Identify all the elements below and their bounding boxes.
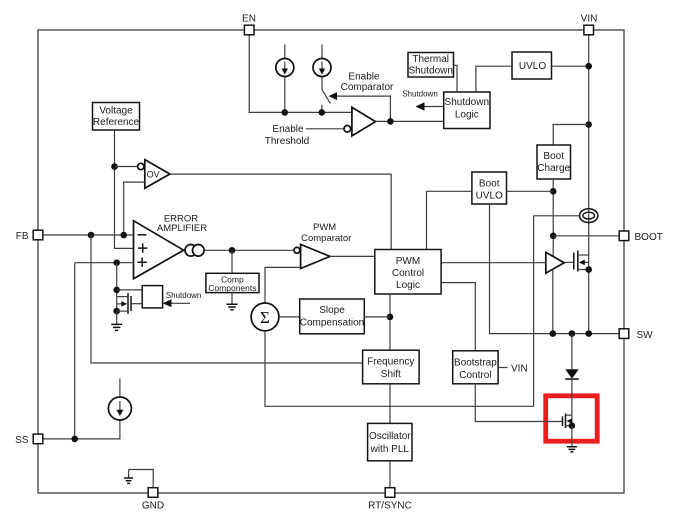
svg-text:Threshold: Threshold — [265, 136, 309, 147]
junction dot Q2 source — [569, 422, 576, 429]
svg-text:Oscillator: Oscillator — [369, 431, 411, 442]
shutdown arrow into clamp box — [171, 302, 190, 304]
wire SS pin to soft-start current source — [43, 420, 120, 439]
transistor Q3 source lead — [117, 310, 128, 312]
svg-text:AMPLIFIER: AMPLIFIER — [157, 223, 207, 234]
svg-text:Boot: Boot — [543, 151, 564, 162]
transistor Q1 high-side NMOS gate bar — [573, 253, 575, 270]
junction dot input2 / shutdown clamp — [113, 259, 120, 266]
wire OV output to pwm control logic — [170, 174, 391, 249]
wire driver return to SW — [552, 269, 554, 333]
Shutdown Logic block — [444, 92, 490, 129]
transistor Q2 low-side NMOS gate bar — [562, 416, 564, 426]
junction dot VIN/boot charge — [585, 121, 592, 128]
wire sigma to slope compensation — [279, 316, 300, 318]
svg-text:Reference: Reference — [93, 117, 140, 128]
summing node sigma — [251, 303, 279, 331]
current source I2 (hysteresis) stub — [321, 44, 323, 89]
pin BOOT — [619, 231, 629, 241]
pin FB — [33, 230, 43, 240]
junction dot VIN/UVLO — [585, 63, 592, 70]
transistor Q1 drain lead — [578, 254, 589, 256]
svg-text:Shutdown: Shutdown — [166, 291, 202, 300]
enable comparator inverting bubble — [344, 126, 351, 133]
transistor Q2 source lead — [566, 425, 572, 427]
svg-text:PWM: PWM — [313, 222, 336, 233]
wire thermal shutdown to shutdown logic — [454, 65, 458, 92]
Oscillator with PLL block — [368, 423, 412, 460]
Voltage Reference block — [93, 103, 140, 131]
svg-text:UVLO: UVLO — [476, 190, 503, 201]
junction dot slope comp node — [387, 314, 394, 321]
wire pwm comparator output — [330, 255, 375, 257]
hysteresis control arrow from comparator output to switch — [336, 96, 391, 121]
Boot Charge block — [537, 145, 571, 179]
transistor Q1 source lead — [578, 269, 589, 271]
OV comparator bubble — [138, 163, 144, 169]
transistor Q1 channel bar — [577, 251, 579, 272]
transistor Q3 body arrow — [117, 303, 122, 305]
error amp minus sign — [138, 234, 147, 236]
PWM comparator triangle — [301, 244, 330, 268]
ground at comp components — [231, 293, 233, 304]
ground at Q3 source — [116, 311, 118, 324]
svg-text:SW: SW — [637, 330, 654, 341]
junction dot comparator output — [387, 118, 394, 125]
transistor Q2 body arrow — [567, 418, 573, 423]
wire vref to OV bubble — [115, 166, 138, 168]
ground near GND pin — [129, 470, 154, 488]
svg-text:Logic: Logic — [396, 280, 420, 291]
junction dot boot node / BOOT pin wire — [550, 233, 557, 240]
error amp plus sign 1 — [138, 243, 147, 252]
svg-text:VIN: VIN — [581, 14, 598, 25]
svg-text:BOOT: BOOT — [635, 232, 663, 243]
svg-text:VIN: VIN — [511, 364, 528, 375]
enable threshold input wire — [306, 128, 344, 130]
svg-text:Thermal: Thermal — [412, 54, 449, 65]
pin EN — [244, 25, 254, 35]
Slope Compensation block — [300, 299, 365, 334]
transistor Q1 body arrow — [584, 261, 589, 263]
junction dot FB / OV branch — [120, 232, 127, 239]
svg-text:SS: SS — [15, 435, 29, 446]
svg-text:Charge: Charge — [537, 163, 570, 174]
wire pwm logic to bootstrap control — [441, 283, 475, 351]
junction dot boot charge / boot uvlo — [550, 188, 557, 195]
svg-text:EN: EN — [242, 14, 256, 25]
wire enable comparator output to shutdown logic — [376, 120, 444, 122]
wire bootstrap control VIN stub — [498, 367, 507, 369]
junction dot SW/driver return — [550, 330, 557, 337]
wire EN pin down and right to enable comparator input — [249, 35, 352, 113]
wire UVLO to VIN rail — [552, 65, 589, 67]
svg-text:Shutdown: Shutdown — [445, 97, 489, 108]
Frequency Shift block — [363, 350, 420, 384]
PWM Control Logic block — [375, 250, 441, 295]
wire sigma to pwm comparator lower input — [265, 267, 301, 303]
wire slope comp to pwm logic vertical — [364, 316, 390, 318]
svg-text:Frequency: Frequency — [367, 357, 414, 368]
svg-text:Voltage: Voltage — [99, 105, 133, 116]
pin SW — [619, 329, 629, 339]
svg-text:Enable: Enable — [348, 72, 380, 83]
wire boot charge down to driver supply — [552, 179, 554, 256]
OV comparator triangle — [145, 160, 170, 189]
UVLO block — [512, 52, 552, 79]
svg-text:Slope: Slope — [319, 305, 345, 316]
svg-text:Comparator: Comparator — [301, 233, 351, 244]
current source I1 (EN pullup) stub — [284, 44, 286, 112]
svg-text:Enable: Enable — [272, 124, 304, 135]
wire BOOT pin — [553, 235, 619, 237]
svg-text:Boot: Boot — [479, 178, 500, 189]
wire pwm logic to driver input — [441, 262, 546, 264]
svg-text:OV: OV — [147, 170, 160, 180]
wire boot uvlo to pwm control logic — [427, 191, 472, 249]
current source I1 circle — [276, 59, 294, 77]
switch lever for I2 — [322, 90, 331, 113]
pin SS — [33, 434, 43, 444]
transistor Q3 gate bar — [130, 296, 132, 311]
ground at Q2 source — [571, 426, 573, 447]
wire UVLO to shutdown logic — [476, 66, 512, 92]
red highlight box around low-side MOSFET — [546, 396, 598, 441]
wire clamp drain to control box — [117, 289, 143, 291]
svg-text:Shift: Shift — [381, 369, 401, 380]
wire bootstrap control to low-side gate — [475, 384, 562, 422]
wire diode to low-side FET drain — [566, 379, 572, 426]
wire current sense to summing node (slope comp loop) — [265, 216, 580, 406]
junction dot clamp source — [113, 308, 120, 315]
svg-text:PWM: PWM — [396, 256, 420, 267]
wire oscillator to RT/SYNC pin — [389, 461, 391, 488]
Boot UVLO block — [472, 172, 507, 204]
svg-text:UVLO: UVLO — [519, 61, 546, 72]
svg-text:Compensation: Compensation — [300, 318, 364, 329]
svg-text:Control: Control — [392, 268, 424, 279]
wire VIN to Boot Charge — [553, 125, 589, 146]
svg-text:Comparator: Comparator — [341, 82, 394, 93]
wire boot uvlo down to SW net — [490, 204, 620, 334]
IC outer boundary — [38, 30, 624, 493]
pin VIN — [584, 25, 594, 35]
wire frequency shift to oscillator — [389, 384, 391, 424]
svg-text:FB: FB — [16, 231, 29, 242]
svg-text:Components: Components — [208, 283, 256, 293]
wire FB down to frequency shift — [91, 235, 363, 363]
error amplifier U2 triangle — [134, 221, 184, 279]
junction dot EN line / switch — [319, 109, 326, 116]
shutdown clamp wire from input2 down — [116, 263, 118, 311]
junction dot clamp drain — [113, 287, 120, 294]
Bootstrap Control block — [453, 351, 498, 384]
enable comparator triangle — [352, 107, 376, 136]
junction dot SW/Q1 source — [585, 330, 592, 337]
transistor Q3 drain lead — [117, 296, 128, 298]
current sense symbol on VIN rail — [580, 209, 598, 223]
svg-text:RT/SYNC: RT/SYNC — [368, 501, 412, 512]
svg-text:Control: Control — [459, 370, 491, 381]
VIN rail from pin down to current sense — [588, 35, 590, 334]
transistor Q2 channel bar — [565, 414, 567, 428]
high-side gate driver triangle — [546, 252, 564, 273]
gm output symbol — [185, 245, 197, 257]
soft start current source I3 — [108, 397, 131, 420]
wire SW to free-wheel diode — [571, 334, 573, 370]
junction dot comp node — [229, 247, 236, 254]
junction dot EN line / I1 — [282, 109, 289, 116]
svg-text:Shutdown: Shutdown — [402, 89, 438, 98]
pin RT/SYNC — [385, 488, 395, 498]
wire FB pin to error amp inverting input — [43, 234, 134, 236]
wire driver output to HS gate — [564, 261, 573, 263]
transistor Q3 clamp FET channel bar — [127, 293, 129, 314]
Thermal Shutdown block — [408, 53, 454, 78]
current source I2 circle — [313, 59, 331, 77]
pin GND — [148, 488, 158, 498]
junction dot SW/diode — [569, 330, 576, 337]
svg-text:Bootstrap: Bootstrap — [454, 358, 497, 369]
svg-text:Σ: Σ — [260, 308, 270, 327]
Comp Components block — [206, 273, 259, 292]
wire OV lower input from FB — [124, 182, 145, 235]
wire vref down to error amp non-inverting input — [115, 130, 134, 248]
svg-text:Logic: Logic — [455, 109, 479, 120]
wire Q3 gate to control box — [132, 303, 143, 305]
junction dot FB / frequency shift branch — [88, 232, 95, 239]
error amp plus sign 2 — [138, 258, 147, 267]
junction dot vref / OV tap — [111, 163, 118, 170]
wire SS / error amp input 2 — [75, 263, 134, 439]
wire pwm logic bottom to frequency shift — [389, 294, 391, 350]
diode D1 — [565, 369, 579, 378]
junction dot SS line — [71, 436, 78, 443]
svg-text:with PLL: with PLL — [370, 444, 410, 455]
PWM comparator bubble — [294, 247, 300, 253]
svg-text:Shutdown: Shutdown — [408, 66, 452, 77]
wire error amp output to pwm comparator — [204, 249, 294, 251]
wire comp node down to comp components — [231, 250, 233, 273]
junction dot Q1 source/body — [585, 266, 592, 273]
svg-text:GND: GND — [142, 501, 164, 512]
shutdown clamp control box — [142, 286, 162, 308]
shutdown output arrow — [424, 106, 444, 108]
wire boot uvlo to boot node — [507, 190, 554, 192]
